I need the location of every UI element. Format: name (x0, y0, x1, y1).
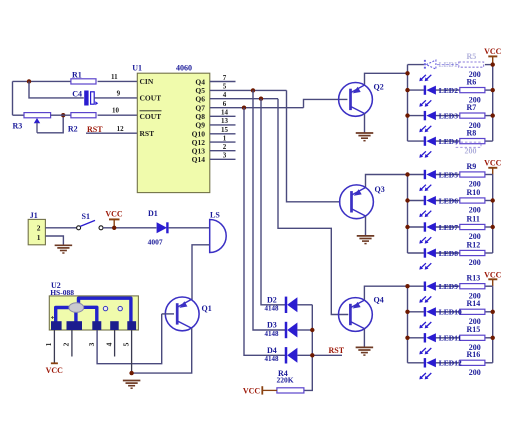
wire LS to Q1 collector (192, 245, 210, 300)
wire LED row LED1 (408, 64, 493, 66)
diode D2 (265, 295, 298, 313)
svg-text:11: 11 (111, 73, 118, 81)
svg-text:4148: 4148 (265, 305, 280, 313)
svg-text:12: 12 (117, 125, 125, 133)
svg-text:4: 4 (223, 91, 227, 99)
pin number 12 (117, 125, 125, 133)
op-amp U1 4060 counter IC body (137, 73, 210, 192)
wire R1 to pin 11 (98, 80, 138, 82)
wire R3 wiper loop (37, 115, 63, 133)
wire diode common vertical (304, 305, 312, 391)
wire Q1 base (162, 313, 174, 315)
value label 200 of R6 (469, 95, 481, 104)
svg-text:LED5: LED5 (439, 170, 458, 179)
U1 right pin wires (210, 82, 304, 160)
svg-text:14: 14 (221, 109, 229, 117)
svg-text:LED3: LED3 (439, 111, 458, 120)
power port VCC at R4 (243, 386, 277, 395)
svg-text:LED12: LED12 (439, 359, 462, 368)
resistor R6 (460, 78, 485, 93)
wire Q1 emitter to ground net (132, 328, 192, 373)
LED LED12 (425, 358, 462, 368)
LED LED11 (425, 333, 462, 343)
svg-text:Q1: Q1 (202, 304, 212, 313)
LED LED4 emission arrows (419, 151, 431, 157)
svg-text:2: 2 (37, 223, 41, 232)
svg-text:VCC: VCC (46, 366, 64, 375)
net label RST at pin 12 (87, 125, 103, 134)
svg-text:R9: R9 (467, 162, 477, 171)
wire LED bank 3 right bus (492, 286, 494, 363)
svg-text:R12: R12 (467, 240, 481, 249)
net label RST at diodes (329, 346, 345, 355)
transistor Q2 (339, 83, 384, 117)
svg-text:LED2: LED2 (439, 86, 458, 95)
svg-text:220K: 220K (277, 376, 294, 385)
LED LED9 emission arrows (419, 296, 431, 302)
ground at Q4 (356, 347, 374, 355)
power port VCC at LED bank 1 (484, 47, 502, 65)
nodes LED bank 1 junctions (405, 62, 495, 117)
svg-text:200: 200 (465, 146, 477, 155)
value label 200 of R9 (469, 180, 481, 189)
svg-text:10: 10 (112, 107, 120, 115)
diode D4 (265, 346, 298, 364)
svg-text:HS-088: HS-088 (50, 288, 74, 297)
value label 200 of R13 (469, 291, 481, 300)
svg-text:D1: D1 (148, 209, 158, 218)
LED LED7 emission arrows (419, 237, 431, 243)
svg-text:VCC: VCC (484, 159, 502, 168)
svg-text:R15: R15 (467, 325, 481, 334)
wire LED row LED5 (408, 174, 493, 176)
svg-text:R2: R2 (68, 125, 78, 134)
svg-text:LED10: LED10 (439, 308, 462, 317)
svg-text:4148: 4148 (265, 330, 280, 338)
svg-text:R8: R8 (467, 129, 477, 138)
wire LED row LED6 (408, 200, 493, 202)
svg-text:J1: J1 (30, 211, 38, 220)
resistor R8 drag ghost copy (456, 142, 481, 155)
node Q7 branch junction (242, 106, 246, 110)
node VCC-S1 junction (112, 226, 116, 230)
svg-text:LED11: LED11 (439, 334, 462, 343)
LED LED7 (425, 222, 458, 232)
wire Q2 collector to LED bank 1 (365, 73, 408, 84)
value label 200 of R11 (469, 232, 481, 241)
wire Q5 down to D3 (253, 90, 285, 330)
svg-text:R10: R10 (467, 188, 481, 197)
resistor R13 (460, 274, 485, 289)
diode D3 (265, 321, 298, 339)
svg-text:200: 200 (469, 368, 481, 377)
wire LED bank 2 right bus (492, 175, 494, 254)
LED LED12 emission arrows (419, 373, 431, 379)
svg-text:S1: S1 (82, 212, 90, 221)
U2 pads (51, 321, 136, 330)
wire D1 to LS (169, 227, 210, 229)
transistor Q1 (165, 297, 211, 331)
wire LED row LED9 (408, 285, 493, 287)
svg-text:Q9: Q9 (195, 121, 205, 130)
node D3 junction (310, 328, 314, 332)
resistor R7 (460, 103, 485, 118)
svg-text:U1: U1 (132, 64, 142, 73)
resistor R4 (277, 369, 304, 393)
potentiometer R3 (13, 113, 51, 133)
value label 200 of R16 (469, 368, 481, 377)
svg-text:2: 2 (62, 342, 71, 346)
svg-text:D2: D2 (267, 295, 277, 304)
svg-text:R1: R1 (72, 71, 82, 80)
value label 200 of R10 (469, 206, 481, 215)
LED LED5 (425, 170, 458, 180)
wire LED bank 1 right bus (492, 65, 494, 142)
wire LED row LED7 (408, 226, 493, 228)
connector J1 (28, 211, 45, 245)
U2 pin2 wire (71, 330, 73, 357)
U1 right pin names Q4-Q14 (192, 77, 206, 164)
wire C4 branch (29, 81, 84, 98)
resistor R8 (460, 129, 485, 144)
svg-text:Q6: Q6 (195, 95, 205, 104)
resistor R16 (460, 350, 485, 365)
svg-text:LED8: LED8 (439, 249, 458, 258)
nodes LED bank 3 junctions (405, 284, 495, 340)
wire Q4 emitter (363, 329, 365, 347)
wire S1 to D1 (103, 227, 156, 229)
U2 bonding wire art (51, 298, 131, 322)
wire left vertical R1-R3 net (12, 81, 14, 115)
diode D1 (148, 209, 168, 247)
svg-text:VCC: VCC (105, 209, 123, 218)
wire C4 to pin 9 (94, 97, 137, 99)
svg-text:LS: LS (210, 210, 220, 219)
svg-text:200: 200 (469, 258, 481, 267)
LED LED5 emission arrows (419, 185, 431, 191)
wire R2 to pin 10 (98, 114, 138, 116)
LED LED10 emission arrows (419, 322, 431, 328)
resistor R11 (460, 214, 485, 229)
wire LED row LED11 (408, 337, 493, 339)
node U2 pin5 ground junction (129, 371, 133, 375)
power port VCC at S1 (105, 209, 123, 228)
node Q5 branch junction (251, 88, 255, 92)
nodes LED bank 2 junctions (405, 172, 495, 229)
power port VCC at LED bank 2 (484, 159, 502, 175)
resistor R12 (460, 240, 485, 255)
value label 200 of R5 (469, 70, 481, 79)
svg-text:Q2: Q2 (374, 83, 384, 92)
svg-text:C4: C4 (72, 90, 82, 99)
LED LED9 (425, 282, 458, 292)
svg-text:LED7: LED7 (439, 223, 458, 232)
U2 pin4 wire (114, 330, 116, 357)
svg-text:6: 6 (223, 100, 227, 108)
svg-text:R14: R14 (467, 299, 481, 308)
svg-text:Q4: Q4 (374, 296, 384, 305)
wire LED row LED3 (408, 115, 493, 117)
svg-text:R3: R3 (13, 122, 23, 131)
ground at J1 (55, 245, 73, 253)
svg-text:R11: R11 (467, 214, 480, 223)
svg-text:D3: D3 (267, 321, 277, 330)
svg-text:R7: R7 (467, 103, 477, 112)
value label 200 of R14 (469, 317, 481, 326)
transistor Q3 (340, 185, 385, 219)
wire D4 to RST net (297, 354, 342, 356)
LED LED8 emission arrows (419, 263, 431, 269)
LED LED3 emission arrows (419, 126, 431, 132)
wire Q4 collector to LED bank 3 (364, 286, 407, 300)
wire Q6 to Q4 base (278, 99, 348, 315)
wire Q3 emitter (365, 216, 367, 236)
resistor R1 (71, 71, 96, 85)
svg-text:3: 3 (87, 342, 96, 346)
LED LED11 emission arrows (419, 348, 431, 354)
value label 200 of R15 (469, 343, 481, 352)
wire D3 to common (297, 329, 312, 331)
svg-text:LED4: LED4 (439, 137, 458, 146)
resistor R15 (460, 325, 485, 340)
svg-text:Q3: Q3 (375, 185, 385, 194)
svg-text:5: 5 (223, 83, 227, 91)
wire Q7 jog to Q2 base (304, 99, 348, 107)
U2 pin1 wire (53, 330, 55, 363)
svg-text:Q4: Q4 (195, 77, 205, 86)
svg-text:VCC: VCC (243, 386, 261, 395)
ground at U2 pin5 (123, 381, 141, 389)
U2 pin3 wire to Q1 base (97, 314, 162, 364)
pin number 11 (111, 73, 118, 81)
resistor R2 (68, 113, 96, 134)
power port VCC at LED bank 3 (484, 270, 502, 286)
svg-text:COUT: COUT (140, 94, 162, 103)
LED LED3 (425, 111, 458, 121)
U2 pin numbers 1-5 rotated (44, 342, 130, 346)
wire LED row LED10 (408, 311, 493, 313)
svg-text:R16: R16 (467, 350, 481, 359)
wire D2 to common (297, 304, 312, 306)
svg-text:1: 1 (37, 233, 41, 242)
wire LED bank 2 left bus (407, 175, 409, 254)
svg-text:LED6: LED6 (439, 196, 458, 205)
svg-text:R6: R6 (467, 78, 477, 87)
value label 200 of R12 (469, 258, 481, 267)
LED LED1 ghost arrows (419, 75, 431, 81)
U2 pin5 wire (131, 330, 133, 373)
LED LED6 emission arrows (419, 211, 431, 217)
wire Q7 down to D4 (244, 108, 285, 356)
wire J1 pin2 to S1 (45, 227, 76, 229)
label 4060 (176, 64, 192, 73)
wire LED row LED8 (408, 252, 493, 254)
wire LED row LED12 (408, 362, 493, 364)
svg-text:RST: RST (140, 129, 155, 138)
LED LED8 (425, 248, 458, 257)
svg-text:COUT: COUT (140, 112, 162, 121)
LED LED6 (425, 196, 458, 206)
resistor R9 (460, 162, 485, 177)
wire Q3 collector to LED bank 2 (366, 175, 408, 188)
wire R3 to R2 (51, 114, 71, 116)
pin number 10 (112, 107, 120, 115)
wire J1 pin1 to ground (45, 236, 63, 245)
wire to R3 (13, 114, 25, 116)
node R1/C4 branch junction (27, 79, 31, 83)
LED LED1 ghost (425, 60, 458, 69)
value label 200 of R7 (469, 121, 481, 130)
svg-text:2: 2 (223, 143, 227, 151)
svg-text:4148: 4148 (265, 355, 280, 363)
svg-text:Q14: Q14 (192, 155, 206, 164)
U1 left pin names CIN COUT COUTbar RST (140, 77, 162, 138)
svg-text:13: 13 (221, 117, 229, 125)
svg-text:VCC: VCC (484, 47, 502, 56)
module U2 HS-088 body (49, 281, 138, 330)
node R3 wiper junction (61, 113, 65, 117)
LED LED2 (425, 85, 458, 95)
speaker LS (210, 210, 227, 252)
wire Q2 emitter (364, 114, 366, 133)
wire LED row LED4 (408, 140, 493, 142)
svg-text:R13: R13 (467, 274, 481, 283)
node D4 junction (310, 353, 314, 357)
node Q6 branch junction (259, 97, 263, 101)
capacitor C4 (72, 90, 98, 106)
svg-text:4: 4 (104, 342, 113, 346)
svg-text:9: 9 (117, 90, 121, 98)
ground at Q2 (356, 133, 374, 141)
svg-text:15: 15 (221, 126, 229, 134)
svg-text:R5: R5 (467, 52, 477, 61)
svg-text:1: 1 (223, 134, 227, 142)
resistor R10 (460, 188, 485, 203)
svg-text:5: 5 (121, 342, 130, 346)
wire RST to pin 12 (86, 132, 137, 134)
ground at Q3 (357, 236, 375, 244)
power port VCC at U2 pin1 (46, 363, 64, 375)
svg-text:4060: 4060 (176, 64, 192, 73)
svg-text:LED9: LED9 (439, 282, 458, 291)
svg-text:CIN: CIN (140, 77, 154, 86)
wire Q6 down to D2 (261, 99, 285, 305)
resistor R14 (460, 299, 485, 314)
svg-text:3: 3 (223, 152, 227, 160)
pin number 9 (117, 90, 121, 98)
wire Q5 to Q3 base (287, 90, 341, 201)
transistor Q4 (339, 296, 384, 332)
svg-text:RST: RST (329, 346, 345, 355)
switch S1 (77, 212, 103, 230)
svg-text:1: 1 (44, 342, 53, 346)
U1 right pin numbers (221, 74, 229, 160)
resistor R5 ghost (459, 52, 484, 67)
label U1 (132, 64, 142, 73)
svg-text:RST: RST (87, 125, 103, 134)
LED LED2 emission arrows (419, 100, 431, 106)
svg-text:D4: D4 (267, 346, 277, 355)
LED LED4 (425, 136, 458, 146)
LED LED10 (425, 307, 462, 317)
svg-text:200: 200 (469, 206, 481, 215)
svg-text:LED1: LED1 (439, 60, 458, 69)
svg-text:7: 7 (223, 74, 227, 82)
wire R1 left segment (13, 80, 71, 82)
wire LED row LED2 (408, 89, 493, 91)
wire LED bank 1 left bus (407, 65, 409, 142)
svg-text:VCC: VCC (484, 270, 502, 279)
svg-text:4007: 4007 (148, 237, 163, 246)
wire LED bank 3 left bus (407, 286, 409, 363)
